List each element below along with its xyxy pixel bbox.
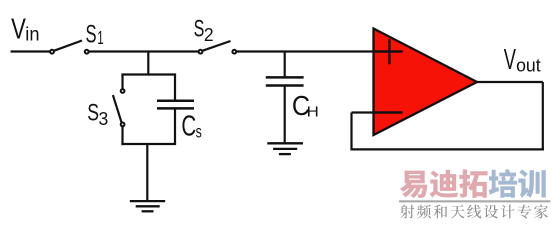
wire: Cs bottom plate to bottom bar <box>174 108 176 144</box>
capacitor Cs top plate <box>157 100 194 103</box>
op-amp inverting input minus sign <box>375 111 403 113</box>
capacitor CH bottom plate <box>266 84 304 87</box>
wire: feedback into op-amp inverting input <box>352 111 375 113</box>
wire: op-amp output <box>477 81 543 83</box>
node: S1 left contact <box>50 50 54 54</box>
svg-text:3: 3 <box>99 109 109 130</box>
svg-text:H: H <box>307 104 319 120</box>
ground 2 (below CH) <box>267 142 303 144</box>
node: S3 bottom contact <box>121 123 125 127</box>
wire: feedback bottom run <box>352 148 544 150</box>
label CH <box>292 90 310 121</box>
svg-text:out: out <box>516 54 541 76</box>
wire: CH branch from main wire down to CH top plate <box>284 52 286 78</box>
switch S3 arm <box>113 95 122 122</box>
label S1 <box>86 22 97 49</box>
wire: left branch down to S3 top contact <box>121 75 123 89</box>
switch S2 arm <box>202 41 230 51</box>
label Vout <box>504 44 517 76</box>
svg-text:in: in <box>25 23 39 45</box>
watermark underline <box>399 200 551 202</box>
wire: bottom bar joining S3 branch and Cs branch <box>121 143 176 145</box>
ground 1 (below Cs/S3) <box>130 200 165 202</box>
node: S1 right contact <box>85 50 89 54</box>
wire: S2 right contact to op-amp non-inverting input (node with CH branch) <box>236 50 373 52</box>
wire: CH bottom plate down to ground 2 <box>284 86 286 144</box>
svg-text:s: s <box>196 122 202 142</box>
label S2 <box>194 16 205 42</box>
svg-text:1: 1 <box>97 29 103 49</box>
wire: branch from main node down to S3/Cs parallel pair <box>147 52 149 76</box>
svg-text:S: S <box>86 22 97 49</box>
watermark logo text "easy di tuo training" big characters <box>400 171 427 199</box>
watermark slogan small characters <box>400 205 414 219</box>
wire: bottom bar to ground 1 <box>146 144 148 201</box>
capacitor Cs bottom plate <box>157 107 194 110</box>
svg-text:V: V <box>504 44 517 76</box>
node: S2 left contact <box>199 50 203 54</box>
node: S2 right contact <box>232 50 236 54</box>
wire: feedback right vertical drop <box>542 82 544 151</box>
svg-text:S: S <box>194 16 205 42</box>
op-amp U1 <box>374 29 478 136</box>
capacitor CH top plate <box>266 76 304 79</box>
op-amp non-inverting input plus sign <box>375 50 403 52</box>
svg-text:S: S <box>87 100 99 126</box>
label S3 <box>87 100 99 126</box>
wire: top bar joining S3 branch and Cs branch <box>121 73 176 75</box>
label Vin <box>11 14 26 45</box>
node: S3 top contact <box>121 89 125 93</box>
svg-text:2: 2 <box>204 24 214 45</box>
label Cs <box>181 111 196 142</box>
wire: Cs branch from top bar to Cs top plate <box>174 75 176 101</box>
svg-text:C: C <box>181 111 196 142</box>
wire: feedback left rise to inverting input <box>350 113 352 151</box>
switch S1 arm <box>54 41 82 51</box>
wire: S3 bottom contact down to bottom bar <box>121 127 123 145</box>
svg-text:V: V <box>11 14 26 45</box>
wire: S1 right contact to S2 left contact (node with Cs/S3 branch) <box>89 50 199 52</box>
wire: Vin input to S1 left contact <box>11 50 51 52</box>
